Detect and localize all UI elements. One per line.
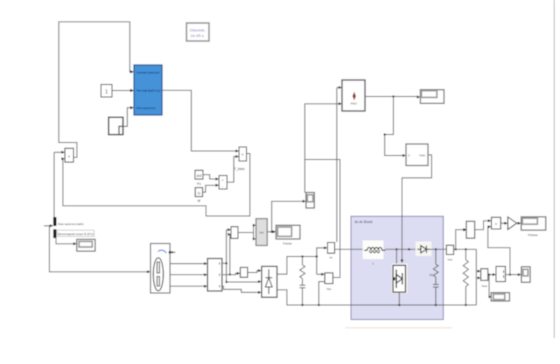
wire: diode to output [430, 248, 447, 250]
scope2 [521, 267, 530, 283]
svg-text:PWM: PWM [419, 155, 425, 158]
svg-text:Rotor speed wm (rad/s): Rotor speed wm (rad/s) [58, 222, 84, 226]
svg-text:Generator speed (pu): Generator speed (pu) [137, 71, 160, 75]
svg-text:Po: Po [197, 182, 201, 186]
wire: turbine Tm output to torque product [162, 90, 236, 151]
wire: divide out to torque product input 2 [227, 157, 236, 183]
display Pdc [276, 225, 300, 245]
wire: rail from MOSFET branch [396, 249, 398, 265]
wire: machine phase C to measurement [170, 285, 204, 287]
wire: vertical from product input1 down to signal label area [53, 152, 55, 226]
svg-text:Electromagnetic torque Te (N*m: Electromagnetic torque Te (N*m) [58, 232, 94, 236]
inductor L [363, 240, 386, 265]
output current measurement block [446, 245, 453, 261]
wire: branch down to PWM generator [385, 97, 403, 156]
mux A block [466, 221, 474, 238]
RC filter branch [300, 255, 306, 305]
svg-text:Sel: Sel [259, 230, 264, 234]
wire: G to divide [203, 185, 216, 192]
powergui block [187, 23, 210, 41]
svg-text:dc-dc Boost: dc-dc Boost [355, 220, 373, 224]
wire: Po to divide [203, 175, 216, 179]
wire: torque feedback horizontal [63, 154, 250, 217]
Im current measurement block [328, 243, 335, 260]
wire: P&O output to scope [365, 96, 417, 98]
svg-text:x: x [495, 222, 497, 226]
P&O MPPT block [342, 80, 365, 111]
svg-text:2e5: 2e5 [196, 174, 202, 178]
wire: input 1 of speed product [54, 151, 62, 153]
wire: step source to turbine input 3 [123, 108, 131, 127]
Vdc voltage measurement block [325, 273, 333, 291]
wire: measurement out3 to rectifier C [222, 286, 259, 292]
three-phase VI measurement block [208, 259, 223, 292]
series current block [240, 267, 247, 277]
wire: PWM out down to MOSFET gate [402, 155, 432, 260]
constant G block [195, 188, 202, 203]
wire: series block to rectifier A [248, 271, 259, 273]
svg-text:x: x [242, 153, 244, 157]
wire: measurement out1 stub [222, 262, 226, 264]
wire: measurement out2 to series block [222, 273, 237, 274]
dc-dc boost subsystem box [351, 216, 443, 319]
selector block (grey) [256, 219, 267, 246]
wire: DC+ rail into boost [335, 248, 367, 250]
PWM generator block [406, 144, 428, 166]
wire: mux A out to product B [475, 221, 489, 230]
rectifier block [262, 266, 277, 297]
svg-text:Vout: Vout [481, 284, 487, 288]
wire: down from labels to machine Tm input [49, 226, 147, 272]
wire: tap to Vdc + input [317, 273, 322, 275]
load resistor [463, 249, 468, 305]
wire: Vdc - input from bottom rail [319, 282, 325, 305]
selection box around Te label [57, 230, 94, 236]
junction dots measurement taps [225, 262, 227, 264]
wire: vertical tap to mux input2 [229, 234, 231, 274]
wire: inductor to diode rail [385, 248, 421, 250]
wire: filter to scope2 [505, 274, 518, 276]
signal label flag 2 [53, 229, 56, 238]
wire: constant to turbine input 2 [112, 90, 131, 92]
wire: machine m port stub [171, 251, 175, 253]
wire: Iout to load and Vm [454, 248, 477, 250]
wire: voltage tap up to product B input2 [488, 227, 510, 275]
MOSFET switch block [392, 264, 408, 294]
svg-text:x: x [68, 155, 70, 159]
torque product block [239, 147, 247, 161]
wire: rectifier + output to DC bus [277, 257, 317, 275]
scope duty [420, 90, 444, 104]
wire: branch up to small scope [272, 201, 303, 232]
svg-text:Pdcbar: Pdcbar [283, 242, 292, 246]
wire: Im measurement up to P&O input 1 [336, 88, 338, 243]
display2 [491, 293, 509, 301]
mux block [231, 227, 238, 239]
wire: Vout to filter block [488, 274, 493, 276]
svg-text::: : [222, 185, 223, 189]
wire: stub arrow into labels [44, 225, 51, 227]
gain triangle [508, 217, 517, 230]
svg-text:Pitch angle (deg)Tm (pu): Pitch angle (deg)Tm (pu) [137, 89, 161, 93]
small scope Pdc [306, 193, 314, 209]
wind speed step source block [109, 117, 123, 134]
svg-text:Iout: Iout [448, 258, 453, 262]
wire: to Vout measurement [475, 249, 477, 305]
Vout measurement block [481, 269, 488, 288]
svg-text:W: W [197, 199, 200, 203]
constant 1 block [101, 85, 112, 98]
wire: rectifier - output to bottom rail [277, 290, 302, 305]
wire: machine phase A to measurement [170, 263, 204, 265]
wire: branch down to display2 [488, 275, 490, 297]
wire: Vdc measurement loop to P&O input 2 [305, 104, 340, 278]
wire: feedback loop top-left to wind turbine input 1 [59, 22, 131, 158]
svg-text:G: G [197, 191, 200, 196]
svg-text:Discrete,: Discrete, [190, 28, 206, 33]
svg-text:Vdc: Vdc [326, 287, 331, 291]
wire: mux input stubs [226, 229, 228, 231]
PMSG machine block [151, 244, 172, 294]
bottom DC rail [302, 304, 476, 306]
wire: selector out to display [267, 231, 273, 233]
wind turbine block [134, 65, 162, 115]
wire: vertical tap to mux input1 [225, 230, 227, 282]
wire: mux out to selector [238, 232, 254, 234]
wire: machine phase B to measurement [170, 274, 204, 276]
wire: input 2 of speed product [62, 158, 63, 160]
product block (speed pu) [65, 148, 74, 162]
signal label flag 1 [53, 217, 56, 226]
wire: current signal up to mux A [456, 230, 465, 250]
wire: phase B routed to rectifier [226, 281, 258, 283]
window right edge line [553, 0, 555, 338]
display Pdcbar [521, 217, 546, 237]
svg-text:2e-05 s.: 2e-05 s. [190, 33, 204, 38]
wire: MOSFET emitter to bottom rail [398, 292, 400, 305]
wire: gain to display [517, 222, 518, 224]
scope Te [77, 239, 95, 251]
svg-text:D: D [408, 154, 410, 158]
output RC branch [430, 249, 439, 305]
svg-text:Pdcbar: Pdcbar [528, 233, 538, 237]
wire: Te label to scope [56, 238, 74, 244]
faint artifact line under boost box [345, 327, 452, 329]
filter block [496, 266, 505, 281]
constant 2e5 block [195, 170, 203, 186]
product B block [491, 217, 500, 229]
diode D [416, 242, 432, 257]
wire: DC bus riser to Im [317, 248, 325, 274]
svg-text:T_base: T_base [234, 167, 245, 171]
svg-text:P&O: P&O [351, 101, 358, 105]
svg-text:1: 1 [105, 90, 108, 96]
divide block [219, 176, 227, 190]
svg-text:RC: RC [430, 273, 434, 277]
svg-text:Wind speed (m/s): Wind speed (m/s) [137, 106, 156, 110]
wire: product B to gain [501, 222, 505, 224]
